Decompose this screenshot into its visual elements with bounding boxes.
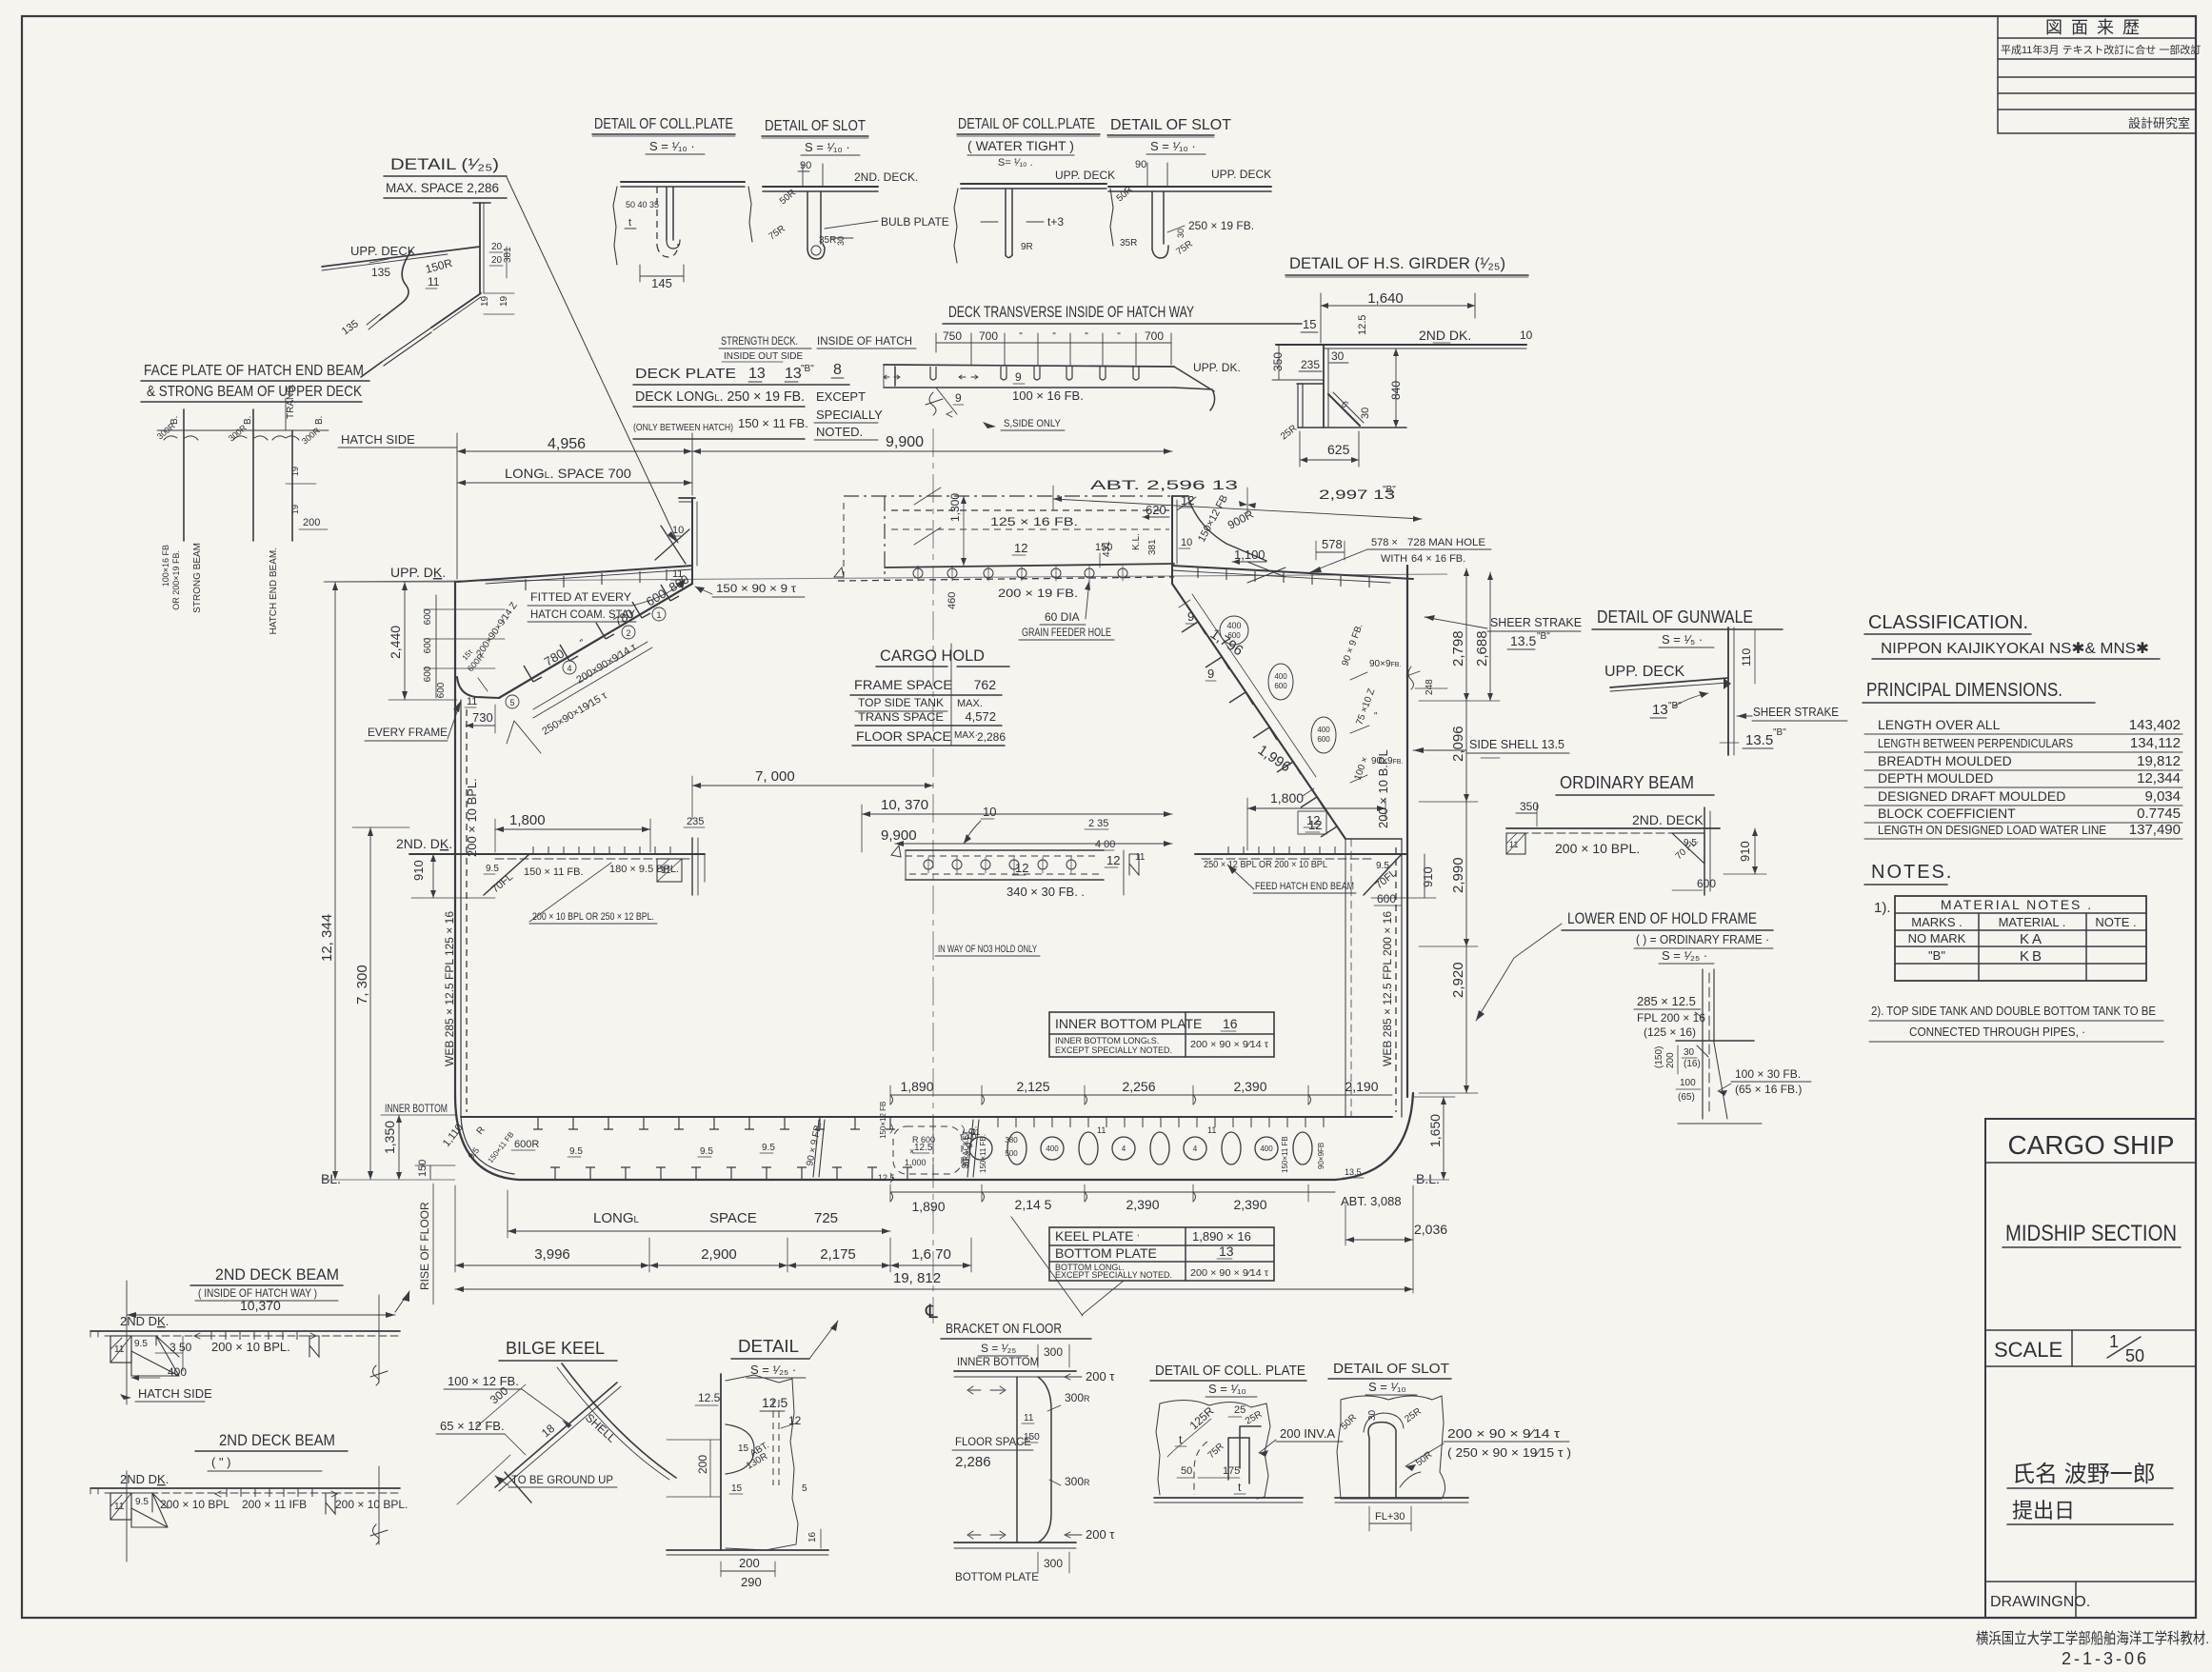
material notes table [1874, 896, 2146, 981]
svg-text:910: 910 [1421, 866, 1435, 887]
svg-text:200: 200 [303, 517, 320, 528]
svg-text:625: 625 [1327, 442, 1350, 457]
svg-text:MATERIAL .: MATERIAL . [1999, 915, 2066, 929]
svg-text:200 × 10 B.PL: 200 × 10 B.PL [1376, 749, 1390, 828]
svg-text:CONNECTED THROUGH PIPES, ·: CONNECTED THROUGH PIPES, · [1909, 1025, 2085, 1039]
svg-text:BOTTOM PLATE: BOTTOM PLATE [955, 1570, 1039, 1583]
svg-text:ABT. 3,088: ABT. 3,088 [1341, 1194, 1402, 1208]
svg-text:7, 000: 7, 000 [755, 768, 795, 785]
floor lightening holes and brackets (right half) [969, 1117, 1324, 1164]
svg-text:IN WAY OF NO3 HOLD ONLY: IN WAY OF NO3 HOLD ONLY [938, 944, 1037, 955]
svg-text:25: 25 [1234, 1404, 1245, 1416]
svg-text:600: 600 [423, 637, 433, 653]
svg-text:9.5: 9.5 [700, 1146, 713, 1157]
svg-text:K.L.: K.L. [1131, 533, 1142, 550]
upper deck line (left, with camber) [457, 566, 692, 584]
dim row below bottom shell [890, 1184, 1402, 1214]
svg-text:35R: 35R [1120, 238, 1137, 249]
svg-text:200 INV.A: 200 INV.A [1280, 1426, 1335, 1441]
svg-text:DECK LONGL. 250 × 19 FB.: DECK LONGL. 250 × 19 FB. [635, 388, 805, 405]
svg-text:9: 9 [1187, 609, 1194, 624]
note 2 text [1869, 1004, 2163, 1042]
svg-text:10,370: 10,370 [240, 1298, 281, 1313]
svg-text:R: R [475, 1125, 488, 1136]
svg-text:SHELL: SHELL [583, 1411, 619, 1445]
svg-text:SHEER STRAKE: SHEER STRAKE [1490, 615, 1582, 629]
svg-text:400: 400 [1317, 726, 1330, 734]
svg-text:60 DIA: 60 DIA [1045, 610, 1080, 624]
BL labels [321, 1171, 1449, 1186]
svg-text:910: 910 [1738, 841, 1752, 862]
svg-text:UPP. DECK: UPP. DECK [1211, 168, 1271, 181]
svg-text:設計研究室: 設計研究室 [2128, 116, 2190, 130]
svg-text:600: 600 [644, 587, 668, 609]
detail of coll.plate water tight drawing [954, 169, 1115, 263]
floor labels (right half) [962, 1125, 1364, 1178]
svg-text:BL.: BL. [321, 1171, 341, 1186]
svg-text:578 ×: 578 × [1371, 537, 1398, 548]
upper deck reference line (light, across sheet) [325, 574, 1447, 582]
svg-text:B.: B. [243, 416, 253, 425]
svg-text:ABT. 2,596 13: ABT. 2,596 13 [1090, 477, 1238, 492]
svg-text:64 × 16 FB.: 64 × 16 FB. [1411, 553, 1465, 565]
svg-text:(16): (16) [1684, 1059, 1701, 1069]
svg-text:200: 200 [739, 1556, 760, 1570]
svg-text:UPP. DECK: UPP. DECK [1055, 169, 1115, 182]
dim row 3,996 / 2,900 / 2,175 / 1,670 [455, 1185, 971, 1272]
face plate / strong beam sections drawing [155, 384, 457, 634]
deck longitudinal ticks under left deck [526, 569, 667, 590]
svg-text:13: 13 [1652, 702, 1668, 718]
svg-text:INNER BOTTOM: INNER BOTTOM [385, 1102, 448, 1115]
hatch side coaming (left) [655, 498, 697, 584]
svg-text:500: 500 [1005, 1149, 1018, 1158]
svg-text:EXCEPT SPECIALLY NOTED.: EXCEPT SPECIALLY NOTED. [1055, 1045, 1172, 1055]
svg-text:12.5: 12.5 [1357, 315, 1368, 335]
svg-text:2-1-3-06: 2-1-3-06 [2062, 1649, 2149, 1668]
svg-text:"B": "B" [1537, 631, 1550, 642]
svg-text:180 × 9.5 BPL.: 180 × 9.5 BPL. [609, 864, 679, 875]
svg-text:( ) = ORDINARY FRAME ·: ( ) = ORDINARY FRAME · [1636, 932, 1769, 946]
svg-text:100 × 30 FB.: 100 × 30 FB. [1735, 1067, 1801, 1081]
svg-text:KB: KB [2020, 948, 2044, 965]
svg-text:0.7745: 0.7745 [2137, 806, 2181, 822]
svg-text:145: 145 [651, 276, 672, 290]
svg-text:12: 12 [1308, 818, 1322, 832]
svg-text:SCALE: SCALE [1994, 1338, 2063, 1362]
svg-text:12: 12 [1014, 541, 1027, 555]
svg-text:2ND. DECK.: 2ND. DECK. [854, 170, 918, 184]
2nd deck left bracket and girder [484, 838, 705, 895]
svg-text:65 × 12 FB.: 65 × 12 FB. [440, 1419, 505, 1433]
principal dimensions heading [1863, 680, 2095, 703]
svg-text:BRACKET ON FLOOR: BRACKET ON FLOOR [946, 1321, 1062, 1337]
svg-text:1,300: 1,300 [948, 493, 962, 522]
svg-text:2,125: 2,125 [1016, 1079, 1049, 1094]
svg-text:2). TOP SIDE TANK AND DOUBL: 2). TOP SIDE TANK AND DOUBLE BOTTOM TANK… [1871, 1004, 2156, 1018]
svg-text:NIPPON KAIJIKYOKAI NS✱& MNS✱: NIPPON KAIJIKYOKAI NS✱& MNS✱ [1881, 641, 2149, 657]
svg-text:2,286: 2,286 [977, 730, 1006, 744]
svg-text:200 τ: 200 τ [1086, 1527, 1115, 1542]
svg-text:30: 30 [836, 236, 846, 246]
svg-text:提出日: 提出日 [2012, 1499, 2075, 1523]
svg-text:2,990: 2,990 [1450, 857, 1466, 893]
svg-text:2,390: 2,390 [1126, 1197, 1159, 1212]
svg-text:1,6 70: 1,6 70 [911, 1246, 951, 1263]
svg-text:400: 400 [1046, 1145, 1059, 1153]
svg-text:50R: 50R [778, 188, 798, 207]
svg-text:1: 1 [2109, 1332, 2119, 1351]
svg-text:200 × 11 IFB: 200 × 11 IFB [242, 1498, 307, 1511]
svg-text:INSIDE OUT SIDE: INSIDE OUT SIDE [724, 351, 803, 362]
slanted deck-width dimension (abt 2,596 / 2,997) [1053, 477, 1422, 522]
svg-text:GRAIN FEEDER HOLE: GRAIN FEEDER HOLE [1022, 626, 1111, 639]
svg-text:PRINCIPAL DIMENSIONS.: PRINCIPAL DIMENSIONS. [1866, 680, 2063, 701]
svg-text:UPP. DECK: UPP. DECK [1604, 664, 1685, 680]
svg-text:": " [1052, 331, 1056, 342]
svg-text:(65): (65) [1678, 1092, 1695, 1103]
web label (right side) [1381, 911, 1394, 1066]
svg-text:13.5: 13.5 [1510, 633, 1536, 648]
svg-text:200: 200 [1665, 1052, 1676, 1068]
svg-text:1,640: 1,640 [1367, 290, 1404, 307]
svg-text:381: 381 [503, 247, 513, 263]
2nd deck beam (inside of hatch way) title [190, 1265, 343, 1301]
svg-text:STRENGTH DECK.: STRENGTH DECK. [721, 334, 798, 348]
svg-text:LONGL. SPACE 700: LONGL. SPACE 700 [505, 466, 631, 481]
bracket on floor title [941, 1321, 1091, 1356]
detail of slot (top, first) title [762, 118, 868, 155]
svg-text:9: 9 [1015, 370, 1022, 384]
svg-text:MAX·: MAX· [954, 730, 978, 741]
svg-text:30: 30 [1367, 1409, 1378, 1421]
labels along left topside slope [474, 572, 691, 753]
svg-text:2,798: 2,798 [1450, 630, 1466, 667]
2nd deck line (left part) [409, 846, 705, 859]
svg-text:FPL 200 × 16: FPL 200 × 16 [1637, 1011, 1705, 1025]
svg-text:1,890 × 16: 1,890 × 16 [1192, 1229, 1251, 1244]
detail of slot (top, second) title [1107, 117, 1231, 154]
svg-text:BULB PLATE: BULB PLATE [881, 215, 949, 229]
svg-text:9: 9 [1207, 667, 1214, 681]
svg-text:12,344: 12,344 [2137, 770, 2181, 786]
svg-text:18: 18 [539, 1422, 557, 1441]
svg-text:2ND DK.: 2ND DK. [120, 1314, 169, 1328]
slope end label 12 [1298, 811, 1326, 834]
svg-text:248: 248 [1425, 679, 1435, 695]
svg-text:2ND DECK BEAM: 2ND DECK BEAM [219, 1431, 335, 1449]
svg-text:CARGO HOLD: CARGO HOLD [880, 647, 985, 665]
svg-text:LENGTH OVER ALL: LENGTH OVER ALL [1878, 717, 2001, 732]
svg-text:300R: 300R [1065, 1391, 1090, 1404]
svg-text:13.5: 13.5 [1345, 1167, 1362, 1177]
svg-text:OR 200×19 FB.: OR 200×19 FB. [171, 550, 181, 610]
svg-text:380: 380 [1005, 1136, 1018, 1145]
svg-text:HATCH SIDE: HATCH SIDE [138, 1386, 212, 1401]
svg-text:15: 15 [1303, 317, 1316, 331]
svg-text:285 × 12.5: 285 × 12.5 [1637, 994, 1696, 1008]
svg-text:( " ): ( " ) [211, 1455, 231, 1469]
topside tank sloped bottom (left) [457, 584, 692, 698]
svg-text:300R: 300R [227, 423, 249, 444]
svg-text:12.5: 12.5 [878, 1173, 895, 1183]
bilge keel title [499, 1339, 617, 1361]
dim 9,900 (hatch width) [692, 433, 1172, 495]
svg-text:UPP. DK.: UPP. DK. [1193, 361, 1241, 374]
svg-text:9,900: 9,900 [881, 827, 917, 844]
detail of coll.plate water tight title [957, 116, 1100, 169]
svg-text:200 × 10 BPL.: 200 × 10 BPL. [211, 1340, 290, 1354]
svg-text:S = ¹⁄₁₀ ·: S = ¹⁄₁₀ · [1150, 139, 1196, 153]
svg-text:4 00: 4 00 [1095, 839, 1115, 850]
svg-text:200 × 10 BPL: 200 × 10 BPL [160, 1498, 229, 1511]
svg-text:20: 20 [491, 242, 503, 252]
svg-text:600: 600 [1274, 682, 1287, 690]
inner bottom label and line [385, 1102, 1392, 1117]
svg-text:16: 16 [1223, 1016, 1238, 1031]
dim 19,812 overall breadth [455, 1185, 1413, 1293]
svg-text:25R: 25R [1403, 1406, 1423, 1425]
detail (s=1/25) drawing [667, 1374, 828, 1589]
svg-text:90×9FB.: 90×9FB. [1369, 659, 1401, 669]
svg-text:BOTTOM PLATE: BOTTOM PLATE [1055, 1245, 1157, 1261]
svg-text:CLASSIFICATION.: CLASSIFICATION. [1868, 612, 2028, 633]
2nd deck left dims/labels [411, 812, 679, 924]
svg-text:12, 344: 12, 344 [319, 914, 335, 962]
ordinary beam drawing [1506, 800, 1766, 895]
svg-text:150×11 FB.: 150×11 FB. [979, 1134, 987, 1173]
right vertical dims 2,798 2,688 [1406, 568, 1500, 701]
2nd deck beam (ditto) title [195, 1431, 348, 1471]
svg-text:DECK TRANSVERSE INSIDE OF HAT: DECK TRANSVERSE INSIDE OF HATCH WAY [948, 303, 1194, 321]
svg-text:TO BE GROUND UP: TO BE GROUND UP [511, 1473, 613, 1486]
svg-text:MARKS .: MARKS . [1911, 915, 1962, 929]
svg-text:50: 50 [2125, 1346, 2144, 1365]
svg-text:125 × 16 FB.: 125 × 16 FB. [990, 515, 1078, 528]
floor labels (left half) [568, 1120, 980, 1177]
svg-text:12: 12 [1015, 861, 1028, 875]
svg-text:175: 175 [1223, 1465, 1240, 1477]
svg-text:HATCH SIDE: HATCH SIDE [341, 432, 415, 447]
svg-text:725: 725 [814, 1210, 838, 1226]
dim 4,956 (side shell to hatch side) [457, 433, 692, 579]
svg-text:4: 4 [567, 664, 571, 673]
leader from keel table to bracket detail [1011, 1217, 1083, 1316]
svg-text:200 × 90 × 9⁄14 τ: 200 × 90 × 9⁄14 τ [1190, 1040, 1268, 1050]
svg-text:75R: 75R [1206, 1442, 1226, 1461]
svg-text:9: 9 [955, 391, 962, 405]
center keelson with manhole (dashed) [878, 1102, 977, 1183]
svg-text:2,256: 2,256 [1122, 1079, 1155, 1094]
bilge keel drawing [436, 1363, 676, 1504]
svg-text:11: 11 [1509, 840, 1518, 849]
svg-text:340 × 30 FB. .: 340 × 30 FB. . [1006, 885, 1085, 899]
dim row above inner bottom (floor spacings) [890, 1079, 1392, 1105]
svg-text:250 × 19 FB.: 250 × 19 FB. [1188, 219, 1254, 232]
svg-text:9.5: 9.5 [762, 1143, 775, 1153]
svg-text:200 × 10 BPL OR 250 × 12 BPL.: 200 × 10 BPL OR 250 × 12 BPL. [532, 911, 654, 923]
svg-text:1,890: 1,890 [911, 1199, 945, 1214]
svg-text:FITTED AT EVERY: FITTED AT EVERY [530, 590, 631, 604]
svg-text:TOP SIDE TANK: TOP SIDE TANK [858, 696, 944, 709]
svg-text:MAX.: MAX. [957, 698, 983, 709]
svg-text:2ND. DECK: 2ND. DECK [1632, 812, 1704, 827]
svg-text:10: 10 [983, 805, 996, 819]
svg-text:762: 762 [974, 677, 997, 692]
side shell (left) [455, 582, 467, 1117]
svg-text:10: 10 [672, 525, 684, 536]
svg-text:2,390: 2,390 [1233, 1079, 1266, 1094]
svg-text:100×16 FB: 100×16 FB [161, 545, 170, 587]
svg-text:DECK PLATE: DECK PLATE [635, 366, 736, 382]
svg-text:400: 400 [168, 1365, 187, 1379]
svg-text:KA: KA [2020, 931, 2044, 947]
svg-text:2,688: 2,688 [1474, 630, 1490, 667]
svg-text:19: 19 [290, 505, 300, 514]
svg-text:B.L.: B.L. [1416, 1171, 1440, 1186]
lower end of hold frame title [1476, 909, 1773, 1021]
svg-text:t+3: t+3 [1047, 215, 1064, 229]
deck transverse inside of hatch way title [943, 303, 1302, 324]
svg-text:300: 300 [1044, 1557, 1063, 1570]
svg-text:9.5: 9.5 [135, 1497, 149, 1507]
every frame label [365, 696, 477, 741]
dim longl space 725 [508, 1190, 890, 1238]
svg-text:1: 1 [656, 610, 661, 620]
svg-text:9R: 9R [1021, 242, 1033, 252]
svg-text:3 50: 3 50 [169, 1341, 192, 1354]
svg-text:NOTED.: NOTED. [816, 425, 863, 439]
svg-text:10, 370: 10, 370 [881, 797, 928, 813]
svg-text:S = ¹⁄₁₀ ·: S = ¹⁄₁₀ · [649, 139, 695, 153]
svg-text:381: 381 [1147, 539, 1158, 555]
svg-text:728 MAN HOLE: 728 MAN HOLE [1407, 537, 1485, 548]
svg-text:1,890: 1,890 [900, 1079, 933, 1094]
svg-text:DEPTH MOULDED: DEPTH MOULDED [1878, 770, 1993, 786]
svg-text:DETAIL OF GUNWALE: DETAIL OF GUNWALE [1597, 607, 1753, 627]
svg-text:UPP. DK.: UPP. DK. [390, 565, 446, 580]
svg-text:t: t [628, 217, 631, 229]
svg-text:90: 90 [800, 160, 811, 171]
2nd dk label (left) [396, 836, 452, 851]
detail of slot (top, second) drawing [1108, 159, 1271, 258]
svg-text:600: 600 [1227, 631, 1241, 640]
svg-text:200 × 90 × 9⁄14 τ: 200 × 90 × 9⁄14 τ [1447, 1426, 1561, 1441]
svg-text:"B": "B" [1383, 485, 1396, 495]
upp dk label [390, 565, 446, 580]
hatch coaming (right) with 900R stay [1102, 493, 1266, 584]
svg-text:200 × 10 BPL.: 200 × 10 BPL. [1555, 841, 1640, 856]
dim longl. space 700 [457, 466, 692, 486]
side shell (right) [1345, 566, 1407, 1117]
svg-text:2ND. DK.: 2ND. DK. [396, 836, 452, 851]
svg-text:13.5: 13.5 [1745, 732, 1773, 748]
svg-text:(150): (150) [1654, 1046, 1664, 1068]
svg-text:5: 5 [509, 698, 514, 707]
man hole note [1310, 537, 1491, 572]
svg-text:750: 750 [943, 329, 962, 343]
svg-text:NOTE .: NOTE . [2095, 915, 2136, 929]
svg-text:LONGL: LONGL [593, 1210, 640, 1226]
svg-text:図面来歴: 図面来歴 [2045, 18, 2148, 37]
svg-text:19: 19 [480, 295, 490, 307]
svg-text:MATERIAL NOTES .: MATERIAL NOTES . [1941, 897, 2093, 912]
svg-text:16: 16 [807, 1531, 818, 1543]
svg-text:2,036: 2,036 [1414, 1222, 1447, 1237]
svg-text:100: 100 [1680, 1078, 1696, 1088]
right vertical dims 2,096 2,990 2,920 1,650 [1413, 701, 1478, 1180]
svg-text:11: 11 [1207, 1125, 1216, 1135]
svg-text:235: 235 [1301, 358, 1320, 371]
svg-text:S = ¹⁄₂₅ ·: S = ¹⁄₂₅ · [1662, 948, 1707, 963]
svg-text:150R: 150R [424, 256, 454, 276]
svg-text:600: 600 [1697, 877, 1716, 890]
svg-text:150×11 FB: 150×11 FB [1281, 1136, 1289, 1173]
topside tank in way of no3 hold (chain line box at center) [844, 488, 1174, 581]
svg-text:2,900: 2,900 [701, 1246, 737, 1263]
svg-text:350: 350 [1271, 352, 1285, 371]
svg-text:DETAIL: DETAIL [738, 1337, 799, 1356]
revision history table (top right) [1998, 16, 2201, 133]
svg-text:134,112: 134,112 [2130, 735, 2181, 751]
svg-text:90 × 9 FB.: 90 × 9 FB. [1340, 623, 1365, 667]
svg-text:INNER BOTTOM LONGLS.: INNER BOTTOM LONGLS. [1055, 1036, 1159, 1045]
svg-text:4,572: 4,572 [965, 709, 996, 724]
svg-text:9,034: 9,034 [2144, 788, 2181, 805]
svg-text:FEED HATCH END BEAM: FEED HATCH END BEAM [1255, 881, 1354, 892]
svg-text:(125 × 16): (125 × 16) [1644, 1025, 1696, 1039]
svg-text:WITH: WITH [1381, 553, 1407, 565]
svg-text:SPACE: SPACE [709, 1210, 757, 1226]
svg-text:200 × 10 BPL.: 200 × 10 BPL. [465, 778, 479, 857]
svg-text:460: 460 [947, 592, 958, 609]
svg-text:2ND DK.: 2ND DK. [120, 1472, 169, 1486]
detail (s=1/25) bottom title [731, 1321, 838, 1378]
floor stiffener brackets (left half) [533, 1117, 912, 1180]
svg-text:250×90×19⁄15 τ: 250×90×19⁄15 τ [540, 689, 609, 737]
detail of coll.plate (bottom) title [1150, 1363, 1306, 1397]
lower end of hold frame drawing [1634, 969, 1811, 1124]
svg-text:": " [1374, 711, 1378, 722]
svg-text:×: × [909, 1146, 914, 1156]
svg-text:25R: 25R [1279, 423, 1299, 442]
svg-text:1,650: 1,650 [1427, 1114, 1443, 1147]
svg-text:FLOOR SPACE: FLOOR SPACE [856, 728, 951, 744]
detail of coll.plate (top, first) title [592, 116, 735, 154]
detail of coll.plate (bottom) drawing [1154, 1400, 1343, 1503]
svg-text:400: 400 [1260, 1145, 1273, 1153]
svg-text:"B": "B" [1773, 727, 1786, 738]
svg-text:730: 730 [472, 710, 493, 725]
svg-text:1,996: 1,996 [1255, 742, 1294, 775]
svg-text:400: 400 [1274, 672, 1287, 681]
svg-text:INNER BOTTOM: INNER BOTTOM [957, 1355, 1039, 1368]
svg-text:2: 2 [626, 628, 630, 638]
ordinary beam title [1556, 773, 1714, 795]
svg-text:S = ¹⁄₁₀: S = ¹⁄₁₀ [1368, 1380, 1406, 1394]
detail of coll.plate (top, first) drawing [613, 182, 752, 290]
svg-text:NOTES.: NOTES. [1871, 862, 1953, 883]
svg-text:10: 10 [1520, 328, 1533, 342]
topside tank sloped bottom (right, no3 hold) [1172, 584, 1402, 839]
svg-text:1).: 1). [1874, 900, 1891, 916]
svg-text:MAX. SPACE 2,286: MAX. SPACE 2,286 [386, 180, 499, 195]
svg-text:BRACKET: BRACKET [962, 1130, 970, 1166]
fitted at every hatch coam. stay note [528, 579, 686, 622]
svg-text:9.5: 9.5 [486, 864, 499, 874]
svg-text:℄: ℄ [925, 1302, 938, 1323]
svg-text:4: 4 [1193, 1145, 1198, 1153]
